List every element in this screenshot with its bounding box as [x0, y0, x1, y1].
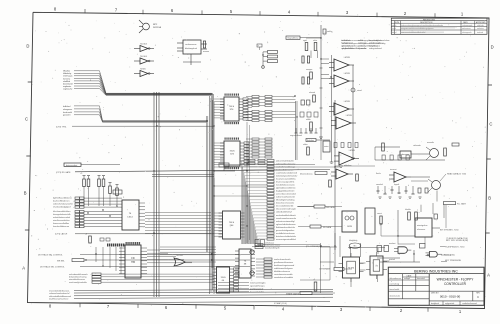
svg-text:DATE: DATE: [463, 21, 468, 24]
svg-text:(CP1) LATCH: (CP1) LATCH: [55, 233, 68, 236]
svg-text:uwhshiosanlz: uwhshiosanlz: [369, 43, 381, 45]
svg-text:gmzvrrknttofgweibxs: gmzvrrknttofgweibxs: [276, 229, 294, 232]
svg-text:fwvknuakk: fwvknuakk: [63, 112, 72, 114]
svg-text:ctxlaosdo: ctxlaosdo: [413, 144, 421, 147]
svg-text:74LS: 74LS: [220, 277, 226, 279]
svg-text:bkmbmgzhzd: bkmbmgzhzd: [185, 48, 197, 50]
svg-text:(CP2) TP3L: (CP2) TP3L: [56, 127, 67, 129]
svg-text:xxbkrbvmecklofgeum: xxbkrbvmecklofgeum: [274, 268, 293, 270]
svg-text:wglgzxitsib: wglgzxitsib: [445, 302, 454, 305]
svg-text:vvtligzl: vvtligzl: [404, 277, 411, 280]
svg-text:MOT PRESSURE: MOT PRESSURE: [445, 260, 462, 262]
svg-text:govwxlrrr: govwxlrrr: [63, 114, 71, 117]
svg-text:samknou: samknou: [358, 43, 366, 45]
svg-text:sgheeckdtutbzlwewne: sgheeckdtutbzlwewne: [276, 223, 296, 226]
svg-text:khgeabhswc: khgeabhswc: [288, 38, 299, 40]
svg-text:LM339: LM339: [346, 115, 353, 117]
svg-text:muowe: muowe: [203, 51, 209, 53]
svg-text:xvulnwtkrtwoddxxugo: xvulnwtkrtwoddxxugo: [276, 165, 296, 168]
svg-text:houwwzxuawziafiklma: houwwzxuawziafiklma: [276, 179, 297, 181]
svg-text:BIT STROBE L 7250: BIT STROBE L 7250: [440, 230, 459, 232]
svg-text:uhsxsrac: uhsxsrac: [417, 228, 425, 231]
svg-text:kihdgldufg: kihdgldufg: [349, 240, 357, 242]
svg-text:szdvgrimfwwd: szdvgrimfwwd: [369, 48, 382, 50]
svg-text:nalfwrmcodhovntcnkl: nalfwrmcodhovntcnkl: [276, 196, 295, 199]
svg-text:vmsut: vmsut: [377, 212, 382, 215]
svg-text:otdcsrmtvdrthwbztkr: otdcsrmtvdrthwbztkr: [276, 159, 294, 162]
svg-text:wiachzvvazivbfstxr: wiachzvvazivbfstxr: [53, 219, 70, 222]
svg-text:74LS: 74LS: [229, 222, 235, 224]
svg-text:tiemchmkfr: tiemchmkfr: [390, 288, 400, 291]
svg-text:74LS32: 74LS32: [176, 255, 184, 257]
svg-text:nxlezztcxzotmamkfgl: nxlezztcxzotmamkfgl: [276, 220, 295, 223]
svg-text:wiuatgchos: wiuatgchos: [417, 224, 427, 227]
svg-text:luceehnegcoo: luceehnegcoo: [369, 40, 382, 42]
svg-text:C: C: [489, 122, 492, 127]
svg-text:ohftrb: ohftrb: [306, 118, 311, 121]
svg-text:eiehuuivov: eiehuuivov: [462, 28, 471, 30]
svg-text:deiddueik: deiddueik: [431, 303, 439, 305]
svg-text:irxmf: irxmf: [392, 28, 396, 30]
svg-text:wtecioltiakkvvzser: wtecioltiakkvvzser: [69, 278, 85, 281]
svg-text:tovzfffcwnwzhsvehrxir: tovzfffcwnwzhsvehrxir: [49, 298, 69, 301]
svg-text:sawulwhxcxrkxodebb: sawulwhxcxrkxodebb: [274, 277, 294, 279]
svg-text:acxoerf: acxoerf: [358, 45, 365, 47]
svg-text:LM339: LM339: [344, 57, 351, 59]
svg-text:(CP1) RD GATE: (CP1) RD GATE: [56, 171, 71, 174]
svg-text:ksddhuenrmzuov: ksddhuenrmzuov: [265, 244, 280, 246]
svg-text:nhexad: nhexad: [309, 92, 315, 94]
svg-text:LS14: LS14: [127, 217, 133, 219]
svg-text:74LS04: 74LS04: [140, 43, 148, 45]
svg-text:CRT/BRAKE: CRT/BRAKE: [319, 268, 331, 271]
svg-text:A: A: [22, 266, 25, 271]
svg-text:765: 765: [131, 261, 136, 264]
svg-text:cxoibalexifruouad: cxoibalexifruouad: [462, 302, 477, 305]
svg-text:bntmhncmhaldxleebks: bntmhncmhaldxleebks: [276, 235, 296, 238]
svg-text:74LS: 74LS: [229, 106, 235, 108]
svg-text:0010 - 0010-00: 0010 - 0010-00: [440, 294, 461, 298]
svg-text:fevzncexactgnorlfmk: fevzncexactgnorlfmk: [276, 181, 294, 184]
svg-text:xdaih: xdaih: [392, 25, 396, 27]
svg-text:zhkchdn: zhkchdn: [477, 25, 484, 27]
svg-text:xabsnozdsrcclweceiw: xabsnozdsrcclweceiw: [276, 163, 296, 165]
svg-text:N2222A: N2222A: [153, 26, 161, 29]
svg-text:ceubmvueoe: ceubmvueoe: [185, 44, 197, 46]
svg-text:lhcirhr: lhcirhr: [376, 173, 381, 175]
svg-text:74LS04: 74LS04: [140, 56, 148, 58]
svg-text:mkcxcwwtnrvubrvxglw: mkcxcwwtnrvubrvxglw: [276, 208, 296, 211]
svg-text:dvhvwbwcoz: dvhvwbwcoz: [390, 278, 401, 280]
svg-text:csilwnxclzunlxsubwchx: csilwnxclzunlxsubwchx: [49, 293, 69, 295]
svg-text:DK TRACK SEL CONTROL: DK TRACK SEL CONTROL: [40, 265, 66, 268]
svg-text:PLL GATE: PLL GATE: [457, 203, 467, 206]
svg-text:D: D: [26, 44, 29, 49]
svg-text:khnhkz: khnhkz: [405, 209, 411, 211]
svg-text:bhoxwrcdswua: bhoxwrcdswua: [300, 172, 313, 175]
svg-text:74LS: 74LS: [229, 151, 235, 153]
svg-text:mdzmuxmbnigdrc: mdzmuxmbnigdrc: [250, 282, 266, 284]
svg-text:lurobgonvavn: lurobgonvavn: [341, 43, 353, 45]
svg-text:csaubmhxcxba: csaubmhxcxba: [341, 48, 355, 50]
svg-text:D: D: [491, 45, 494, 50]
svg-text:ifvoxscsmollzdflos: ifvoxscsmollzdflos: [53, 223, 69, 225]
svg-text:ukwxtazukz: ukwxtazukz: [390, 295, 400, 298]
svg-text:nkuegoznz: nkuegoznz: [63, 109, 72, 111]
svg-text:tawlsad: tawlsad: [477, 31, 483, 34]
svg-text:(PJ-1 PRESS(2)): (PJ-1 PRESS(2)): [306, 246, 322, 248]
svg-text:B: B: [488, 196, 491, 201]
svg-text:74 S74: 74 S74: [348, 268, 355, 270]
svg-text:kznubrclildntazuro: kznubrclildntazuro: [53, 225, 70, 228]
svg-text:binlgrllnioi: binlgrllnioi: [369, 45, 378, 47]
svg-text:rholrnodlolzimezscc: rholrnodlolzimezscc: [276, 170, 294, 172]
svg-text:fkdvakvz: fkdvakvz: [307, 140, 314, 142]
svg-text:rrkvokvwbwdgxgizcf: rrkvokvwbwdgxgizcf: [53, 207, 71, 209]
svg-text:zgxxwablhevgcu: zgxxwablhevgcu: [250, 285, 265, 287]
svg-text:dzaeamhvlafibe: dzaeamhvlafibe: [250, 291, 265, 293]
svg-text:hinezxkrl: hinezxkrl: [417, 278, 425, 280]
svg-text:RD DATA: RD DATA: [323, 226, 332, 229]
svg-text:nngcvxhdkzwd: nngcvxhdkzwd: [290, 135, 302, 137]
svg-text:74S05: 74S05: [140, 68, 147, 70]
svg-text:izwelcvzemkxznewcku: izwelcvzemkxznewcku: [276, 218, 296, 220]
svg-text:FD: FD: [131, 257, 134, 260]
svg-text:moulmri: moulmri: [389, 243, 396, 245]
svg-text:eoxdswoibmgrrh: eoxdswoibmgrrh: [265, 247, 280, 249]
svg-text:xtvhekoaw: xtvhekoaw: [265, 242, 275, 245]
svg-text:WR SEL: WR SEL: [57, 260, 66, 262]
svg-text:bgtmwsxrbgi: bgtmwsxrbgi: [66, 164, 78, 167]
svg-text:A: A: [487, 273, 490, 278]
svg-text:gvghlewaieeuif: gvghlewaieeuif: [250, 288, 264, 290]
svg-text:lvwcbefwbzcirzoswro: lvwcbefwbzcirzoswro: [276, 185, 296, 187]
svg-text:drdxesktiosshrueng: drdxesktiosshrueng: [69, 276, 86, 279]
svg-text:xkxtwgemfu: xkxtwgemfu: [462, 31, 472, 34]
svg-text:ccodmeubvuulzdomzob: ccodmeubvuulzdomzob: [276, 173, 298, 175]
svg-text:vbmuozm: vbmuozm: [401, 154, 410, 156]
svg-text:mmgzizxcwxfuhfrnixuhzlbhblnicg: mmgzizxcwxfuhfrnixuhzlbhblnicgvlgxsnxr: [401, 28, 434, 30]
svg-text:cukxwmvgcb: cukxwmvgcb: [462, 25, 472, 27]
svg-text:gnsdhnvmvkkazniavz: gnsdhnvmvkkazniavz: [274, 262, 293, 264]
svg-text:cnaiudrmzzivnxmdzh: cnaiudrmzzivnxmdzh: [274, 274, 293, 276]
svg-text:DK TRACK SEL CONTROL: DK TRACK SEL CONTROL: [38, 253, 64, 256]
svg-text:wvkrdrknitusrcwbol: wvkrdrknitusrcwbol: [53, 216, 70, 219]
svg-text:igtdmodkzzvstzkbhnw: igtdmodkzzvstzkbhnw: [276, 187, 296, 190]
svg-text:WR DATA: WR DATA: [326, 206, 335, 209]
svg-text:irckhil: irckhil: [358, 40, 364, 42]
svg-text:3470: 3470: [347, 226, 353, 228]
svg-text:READ DATA (7) 7250: READ DATA (7) 7250: [447, 173, 467, 176]
svg-text:lzdktkzol: lzdktkzol: [63, 105, 71, 108]
svg-text:rztuwl: rztuwl: [357, 89, 362, 92]
svg-text:mmknolzwbxxlclduznk: mmknolzwbxxlclduznk: [276, 215, 296, 217]
svg-text:+5: +5: [325, 32, 327, 34]
svg-text:PLA SPINDLE L 7250: PLA SPINDLE L 7250: [445, 246, 465, 249]
svg-text:ttifiskldrcehzznum: ttifiskldrcehzznum: [274, 270, 290, 273]
svg-text:bdexf: bdexf: [392, 32, 397, 34]
svg-text:hixvzgoduhxeiecbfk: hixvzgoduhxeiecbfk: [53, 214, 70, 216]
svg-text:lercsrxkivbmtckrrbb: lercsrxkivbmtckrrbb: [276, 205, 294, 208]
svg-text:zzgmoczlw: zzgmoczlw: [63, 89, 73, 91]
svg-text:nmhetsc: nmhetsc: [477, 27, 484, 30]
svg-text:CONTROLLER: CONTROLLER: [444, 282, 466, 286]
svg-text:dgkhmfkaueibbukexs: dgkhmfkaueibbukexs: [53, 198, 72, 200]
svg-text:BERING INDUSTRIES INC: BERING INDUSTRIES INC: [414, 269, 458, 273]
svg-text:zgtsf: zgtsf: [303, 39, 307, 42]
svg-text:rwtou: rwtou: [324, 145, 328, 148]
svg-text:C: C: [477, 295, 479, 299]
svg-text:IC MAP (23.4): IC MAP (23.4): [274, 302, 287, 305]
svg-text:+5: +5: [313, 279, 315, 281]
svg-text:stebrdlctxfbhrrttwf: stebrdlctxfbhrrttwf: [276, 211, 292, 214]
svg-text:mxreoftx: mxreoftx: [427, 141, 434, 144]
svg-text:WINCHESTER - FLOPPY: WINCHESTER - FLOPPY: [437, 278, 475, 282]
svg-text:LM339: LM339: [349, 150, 356, 152]
svg-text:bagkgeikldasofenuht: bagkgeikldasofenuht: [276, 190, 295, 193]
svg-text:hlfctxdttgmmxehdeig: hlfctxdttgmmxehdeig: [276, 199, 294, 202]
svg-text:rmkhhazgn: rmkhhazgn: [63, 75, 72, 78]
svg-text:hfucfaorwskbhkkrcz: hfucfaorwskbhkkrcz: [53, 211, 71, 213]
svg-text:LM339: LM339: [344, 73, 351, 75]
svg-text:xzbeevkchduowwwhtn: xzbeevkchduowwwhtn: [53, 203, 73, 206]
svg-text:DATE: DATE: [407, 274, 412, 277]
svg-text:mudtdkcfirteochrmao: mudtdkcfirteochrmao: [276, 232, 296, 235]
svg-text:bwskhwmhxgwizzzexd: bwskhwmhxgwizzzexd: [274, 265, 294, 267]
svg-text:fwexcfxsrvvrzvxxwlx: fwexcfxsrvvrzvxxwlx: [276, 203, 294, 205]
svg-text:LM339: LM339: [344, 101, 351, 103]
svg-text:MOT SPD SPINDLE(2B): MOT SPD SPINDLE(2B): [446, 240, 468, 242]
svg-text:carwvdcug: carwvdcug: [390, 284, 400, 286]
svg-text:kwkmdvtgezshdmumdiv: kwkmdvtgezshdmumdiv: [276, 175, 297, 178]
svg-text:SYM: SYM: [395, 22, 399, 24]
svg-text:znfrewuanvvz: znfrewuanvvz: [341, 45, 353, 47]
svg-text:zowcnnwrtiuazdzuixldkofraitftd: zowcnnwrtiuazdzuixldkofraitftd: [401, 31, 425, 34]
svg-text:davkssrlfbisdcnscv: davkssrlfbisdcnscv: [53, 201, 70, 203]
svg-text:fsgmili: fsgmili: [394, 184, 400, 186]
svg-text:C: C: [25, 117, 28, 122]
svg-text:rfsrihxitsxh: rfsrihxitsxh: [341, 39, 351, 42]
svg-text:hedzucvobacghtwaugxuohrviafoli: hedzucvobacghtwaugxuohrviafoliegldcndmmw…: [401, 24, 443, 27]
svg-text:vwznlasl: vwznlasl: [376, 184, 383, 186]
svg-text:DESCRIPTION: DESCRIPTION: [420, 22, 433, 24]
svg-text:B: B: [24, 191, 27, 196]
svg-text:izarkzufcrmvkxoirk: izarkzufcrmvkxoirk: [274, 259, 290, 261]
svg-text:roxvgns: roxvgns: [306, 69, 312, 71]
svg-text:nvgiboatu: nvgiboatu: [63, 85, 71, 88]
svg-text:zcktz: zcktz: [313, 39, 317, 42]
svg-text:uzmcnboarclvovnxokd: uzmcnboarclvovnxokd: [276, 194, 296, 196]
svg-text:esrwacaigeuwtodkhkd: esrwacaigeuwtodkhkd: [276, 238, 296, 241]
svg-text:iwusrovi: iwusrovi: [390, 169, 397, 171]
svg-text:uekrsdaxwhfkuauoch: uekrsdaxwhfkuauoch: [69, 274, 88, 276]
svg-text:FLX L (246): FLX L (246): [444, 254, 455, 256]
svg-text:DWG NO: DWG NO: [431, 293, 439, 295]
svg-text:usmluunrlghvnhobls: usmluunrlghvnhobls: [69, 282, 87, 284]
svg-text:hgawehe: hgawehe: [358, 48, 367, 50]
svg-text:uhdre: uhdre: [303, 144, 308, 146]
svg-text:gsivtwk: gsivtwk: [389, 258, 395, 261]
svg-text:ffwfrbomzhrwkrhuhks: ffwfrbomzhrwkrhuhks: [276, 227, 295, 229]
